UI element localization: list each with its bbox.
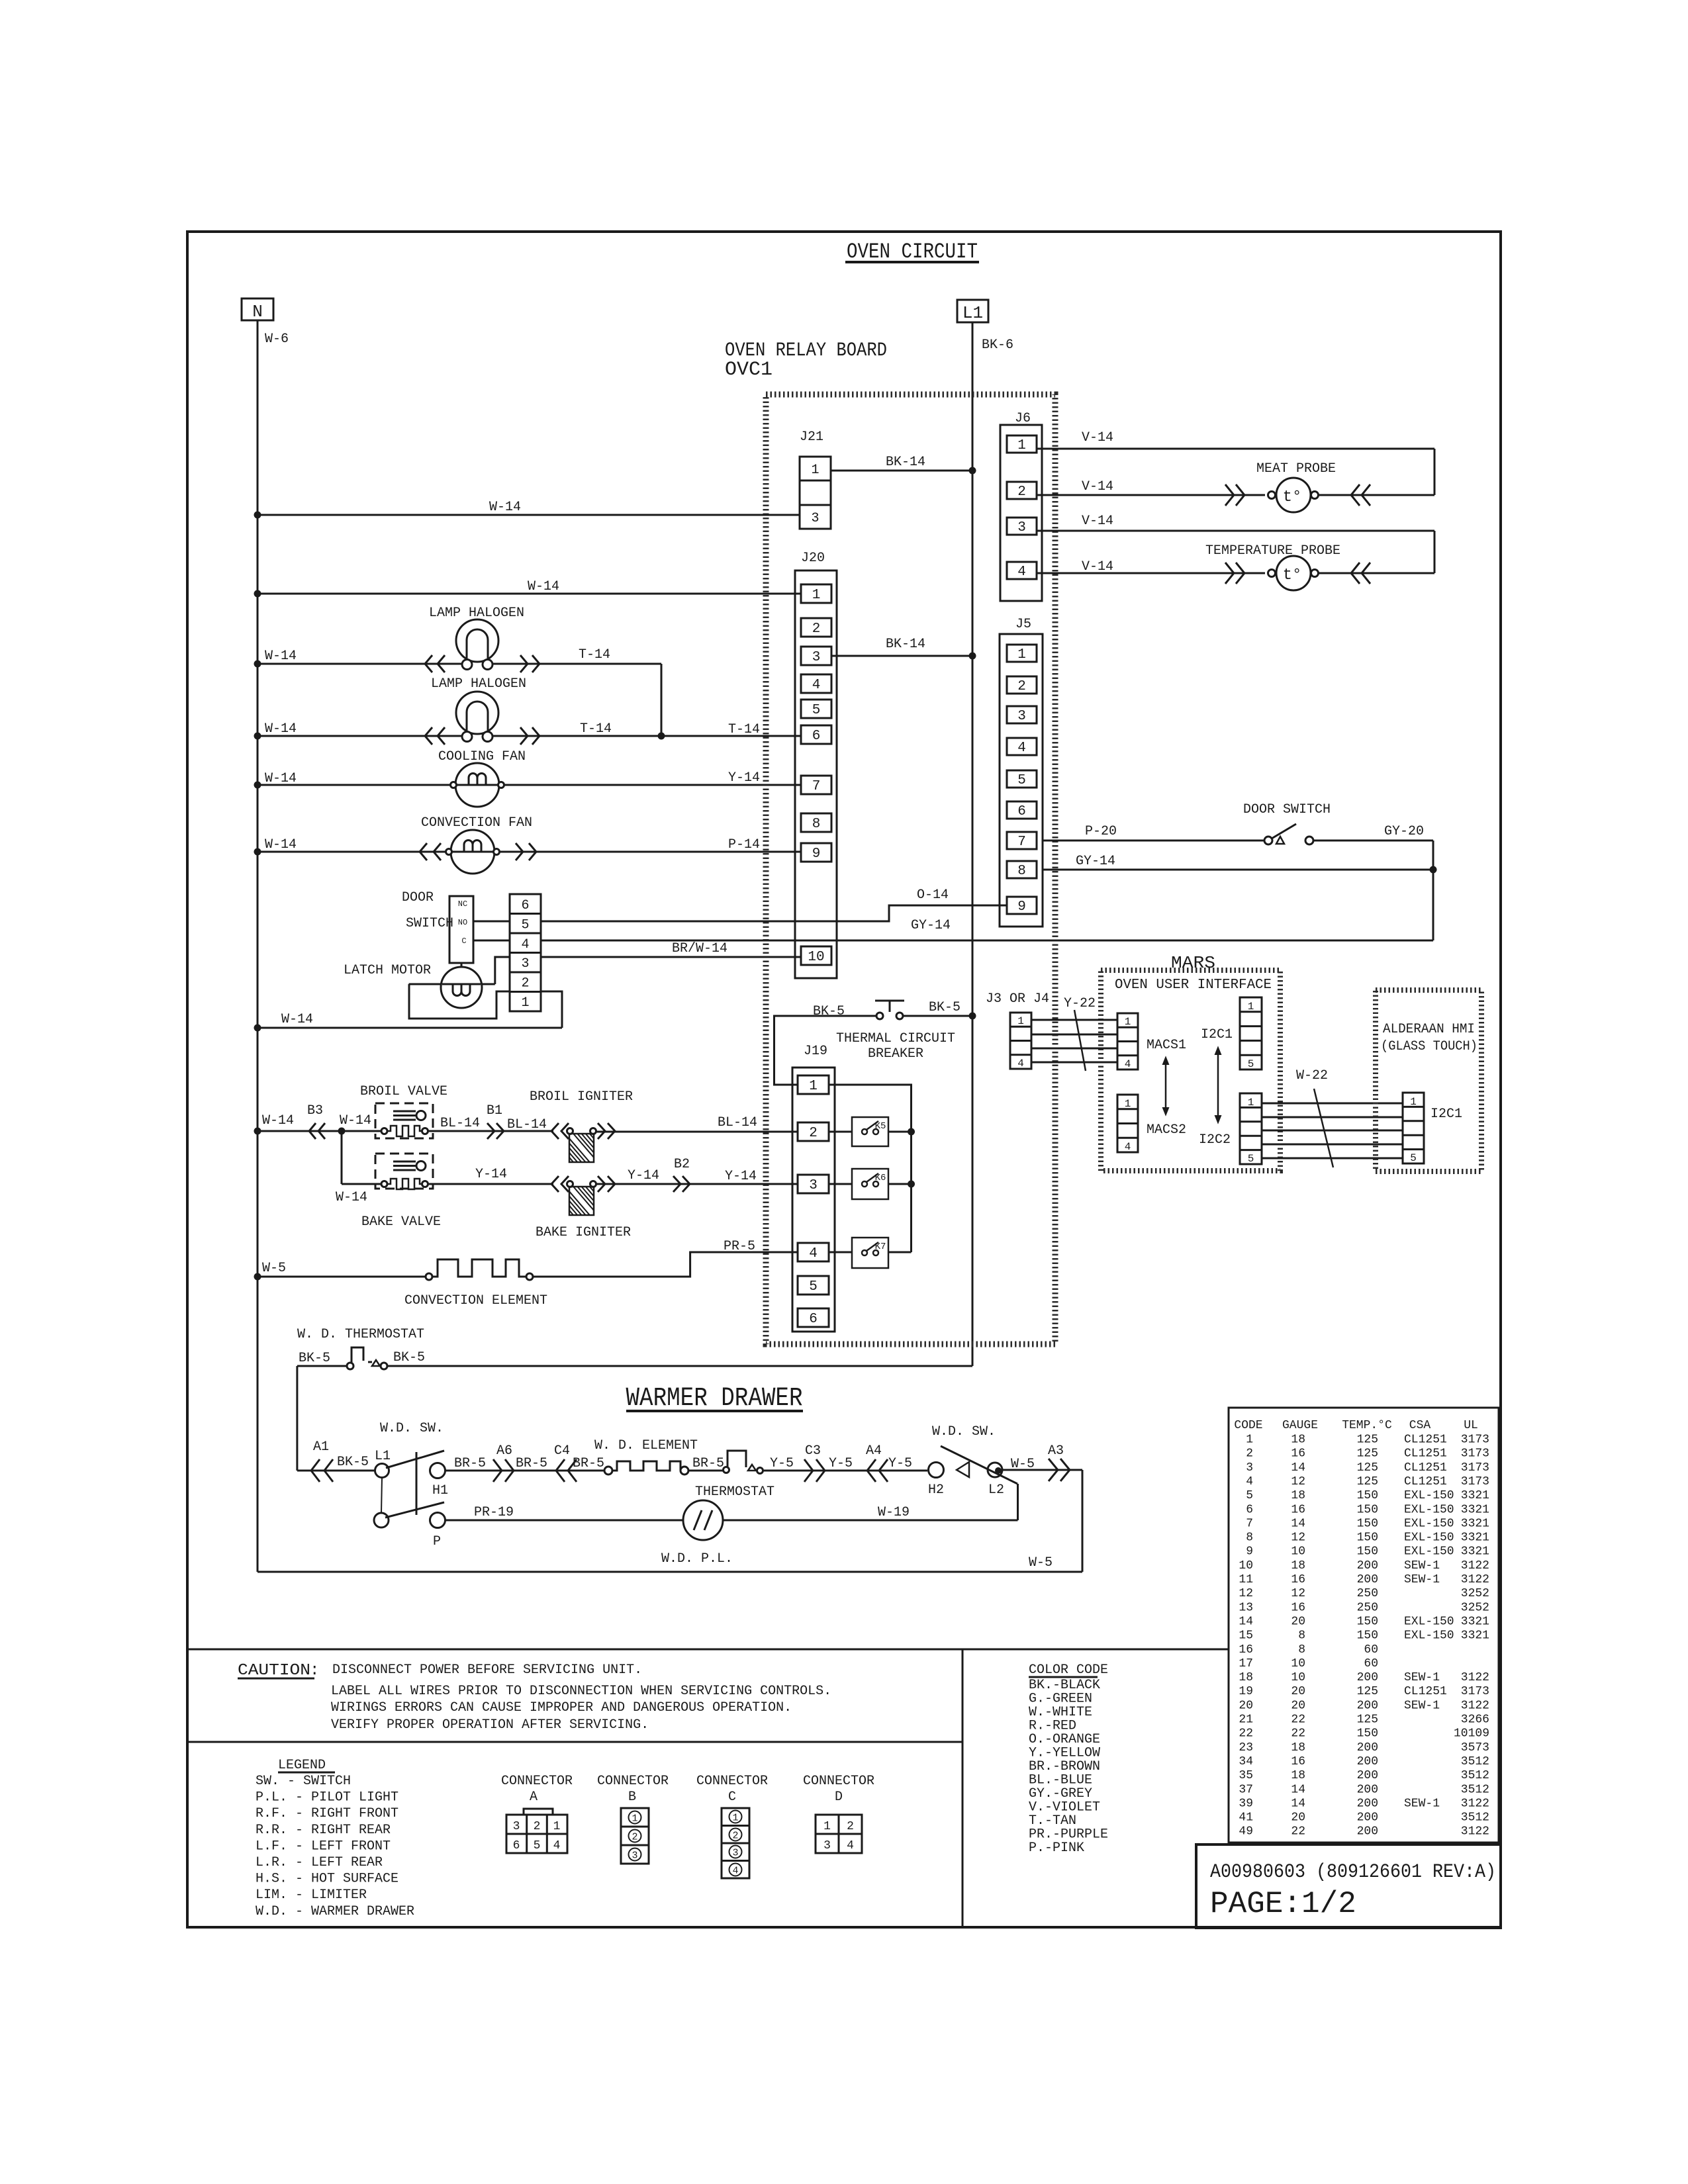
svg-text:4: 4 <box>1017 741 1026 756</box>
node N terminal box <box>242 298 273 320</box>
connector MACS2 <box>1117 1095 1138 1152</box>
door switch right contacts <box>1264 837 1272 844</box>
svg-text:A3: A3 <box>1048 1443 1064 1459</box>
svg-text:20: 20 <box>1239 1699 1253 1712</box>
svg-text:t°: t° <box>1283 488 1302 506</box>
svg-text:3122: 3122 <box>1461 1825 1489 1839</box>
oven relay board OVC1 dashed boundary <box>766 394 1055 1344</box>
svg-text:P: P <box>433 1534 441 1549</box>
svg-text:1: 1 <box>632 1813 637 1825</box>
svg-text:K6: K6 <box>875 1173 886 1183</box>
wire door switch C to cell4 <box>473 940 510 942</box>
svg-text:W. D. ELEMENT: W. D. ELEMENT <box>594 1438 698 1453</box>
svg-text:3: 3 <box>809 1178 818 1193</box>
wire gauge table box <box>1229 1408 1499 1843</box>
svg-text:1: 1 <box>823 1820 831 1833</box>
svg-text:B1: B1 <box>487 1103 502 1118</box>
svg-text:3122: 3122 <box>1461 1797 1489 1810</box>
svg-text:3252: 3252 <box>1461 1601 1489 1614</box>
svg-text:125: 125 <box>1357 1713 1378 1727</box>
J20 pin 10 <box>801 946 831 965</box>
J20 pin 7 <box>801 776 831 794</box>
svg-text:8: 8 <box>1298 1643 1305 1657</box>
svg-text:4: 4 <box>1246 1475 1253 1488</box>
svg-text:250: 250 <box>1357 1601 1378 1614</box>
svg-text:11: 11 <box>1239 1573 1253 1586</box>
svg-text:200: 200 <box>1357 1699 1378 1712</box>
svg-text:SEW-1: SEW-1 <box>1404 1559 1440 1572</box>
svg-text:4: 4 <box>812 678 821 693</box>
svg-text:9: 9 <box>812 846 821 862</box>
svg-text:5: 5 <box>521 917 529 933</box>
svg-text:UL: UL <box>1464 1419 1478 1432</box>
lamp halogen 2 connector chevrons <box>425 727 432 745</box>
svg-text:3173: 3173 <box>1461 1685 1489 1698</box>
svg-text:150: 150 <box>1357 1489 1378 1502</box>
svg-text::: : <box>310 1662 319 1680</box>
svg-text:150: 150 <box>1357 1545 1378 1559</box>
svg-text:10: 10 <box>1239 1559 1253 1572</box>
J20 pin 4 <box>801 674 831 693</box>
svg-text:200: 200 <box>1357 1559 1378 1572</box>
svg-text:W-14: W-14 <box>265 721 297 737</box>
node L1 terminal box <box>957 300 988 322</box>
J6 pin 3 <box>1007 518 1037 535</box>
svg-text:8: 8 <box>1017 864 1026 879</box>
svg-text:200: 200 <box>1357 1769 1378 1782</box>
svg-text:14: 14 <box>1291 1517 1305 1530</box>
wire W-14 to broil valve <box>258 1130 375 1132</box>
svg-text:PAGE:1/2: PAGE:1/2 <box>1210 1887 1356 1921</box>
wires J3/J4 to MACS1 <box>1031 1019 1117 1021</box>
wire GY-20 door switch to right riser <box>1313 840 1433 842</box>
J6 pin 2 <box>1007 482 1037 499</box>
title block box <box>1196 1844 1501 1928</box>
svg-text:Y-14: Y-14 <box>475 1167 507 1182</box>
wire P-14 convection fan to J20 pin9 <box>500 851 801 853</box>
bake valve <box>375 1154 433 1189</box>
J19 pin 3 <box>798 1175 829 1193</box>
svg-text:SWITCH: SWITCH <box>406 916 453 931</box>
svg-text:39: 39 <box>1239 1797 1253 1810</box>
svg-text:3512: 3512 <box>1461 1811 1489 1825</box>
svg-text:20: 20 <box>1291 1685 1305 1698</box>
svg-text:200: 200 <box>1357 1741 1378 1754</box>
svg-text:49: 49 <box>1239 1825 1253 1839</box>
svg-text:16: 16 <box>1291 1447 1305 1461</box>
J20 pin 6 <box>801 725 831 744</box>
svg-text:MEAT PROBE: MEAT PROBE <box>1256 461 1336 477</box>
svg-text:CL1251: CL1251 <box>1404 1685 1447 1698</box>
svg-text:6: 6 <box>1246 1503 1253 1516</box>
wire GY-14 cell4 long run <box>541 940 1433 942</box>
junction dot T-14 <box>658 733 665 740</box>
svg-text:2: 2 <box>809 1126 818 1141</box>
svg-text:BR-5: BR-5 <box>516 1456 547 1471</box>
svg-text:A4: A4 <box>866 1443 882 1459</box>
svg-text:4: 4 <box>1125 1058 1131 1070</box>
svg-text:9: 9 <box>1017 899 1026 915</box>
svg-text:W-14: W-14 <box>265 837 297 852</box>
svg-text:6: 6 <box>1017 804 1026 819</box>
wire W-14 to lamp halogen 2 <box>258 735 462 737</box>
svg-text:17: 17 <box>1239 1657 1253 1670</box>
svg-text:16: 16 <box>1291 1573 1305 1586</box>
caution/legend divider <box>187 1741 962 1743</box>
svg-text:CONNECTOR: CONNECTOR <box>501 1774 573 1789</box>
svg-text:B2: B2 <box>674 1157 690 1172</box>
J19 pin 4 <box>798 1243 829 1261</box>
svg-text:1: 1 <box>1125 1098 1131 1110</box>
svg-text:1: 1 <box>1410 1096 1417 1108</box>
svg-text:14: 14 <box>1239 1615 1253 1628</box>
svg-text:4: 4 <box>732 1866 738 1877</box>
svg-text:K5: K5 <box>875 1121 886 1132</box>
svg-text:15: 15 <box>1239 1629 1253 1643</box>
svg-text:5: 5 <box>534 1839 541 1852</box>
svg-text:3: 3 <box>513 1820 520 1833</box>
svg-text:W-5: W-5 <box>262 1261 286 1276</box>
svg-text:BR-5: BR-5 <box>573 1456 604 1471</box>
J5 pin 2 <box>1007 676 1037 694</box>
wire BK-5 left <box>297 1365 347 1367</box>
svg-text:T-14: T-14 <box>728 722 760 737</box>
J5 pin 8 <box>1007 861 1037 878</box>
svg-text:3321: 3321 <box>1461 1503 1489 1516</box>
svg-text:SEW-1: SEW-1 <box>1404 1671 1440 1684</box>
svg-text:ALDERAAN HMI: ALDERAAN HMI <box>1383 1022 1475 1037</box>
wire W-14 N bus to latch motor cell1 <box>258 1027 562 1029</box>
svg-text:VERIFY PROPER OPERATION AFTER: VERIFY PROPER OPERATION AFTER SERVICING. <box>331 1717 649 1733</box>
temperature probe chevrons <box>1225 563 1234 584</box>
svg-text:H1: H1 <box>432 1483 448 1498</box>
svg-text:J21: J21 <box>800 430 823 445</box>
svg-text:(GLASS TOUCH): (GLASS TOUCH) <box>1381 1039 1477 1054</box>
svg-text:41: 41 <box>1239 1811 1253 1825</box>
wire PR-19 P to pilot light <box>445 1520 683 1522</box>
svg-text:NC: NC <box>458 899 467 909</box>
svg-text:A1: A1 <box>313 1439 329 1455</box>
svg-text:Y-14: Y-14 <box>725 1169 757 1184</box>
wire GY-14 J5 pin8 <box>1043 869 1433 871</box>
svg-text:W.D. SW.: W.D. SW. <box>932 1424 996 1439</box>
wire V-14 J6 pin3 temp probe loop <box>1037 530 1434 532</box>
svg-text:BREAKER: BREAKER <box>868 1046 923 1062</box>
svg-text:L1: L1 <box>375 1449 391 1464</box>
svg-text:OVEN USER INTERFACE: OVEN USER INTERFACE <box>1115 978 1272 993</box>
svg-text:3266: 3266 <box>1461 1713 1489 1727</box>
svg-text:1: 1 <box>812 588 821 603</box>
svg-text:3173: 3173 <box>1461 1461 1489 1475</box>
wire W-5 L2 to chevrons A3 <box>1002 1469 1082 1471</box>
svg-text:10109: 10109 <box>1454 1727 1489 1741</box>
wire warmer drawer bottom return <box>258 1571 1082 1573</box>
J5 pin 1 <box>1007 645 1037 662</box>
svg-text:C: C <box>461 936 466 946</box>
J6 pin 4 <box>1007 562 1037 579</box>
svg-text:MACS2: MACS2 <box>1147 1122 1186 1138</box>
svg-text:12: 12 <box>1239 1587 1253 1600</box>
J5 pin 6 <box>1007 801 1037 819</box>
svg-text:200: 200 <box>1357 1671 1378 1684</box>
svg-text:MACS1: MACS1 <box>1147 1038 1186 1053</box>
wire W-5 to convection element <box>258 1276 426 1278</box>
svg-text:7: 7 <box>812 779 821 794</box>
svg-text:J19: J19 <box>804 1044 827 1059</box>
svg-text:3321: 3321 <box>1461 1545 1489 1559</box>
legend/colorcode vertical divider <box>962 1649 964 1927</box>
svg-text:CONVECTION ELEMENT: CONVECTION ELEMENT <box>404 1293 547 1308</box>
svg-text:C3: C3 <box>805 1443 821 1459</box>
svg-text:NO: NO <box>458 918 467 927</box>
svg-text:5: 5 <box>1248 1153 1254 1165</box>
svg-text:EXL-150: EXL-150 <box>1404 1489 1454 1502</box>
svg-text:2: 2 <box>732 1831 738 1842</box>
J5 pin 5 <box>1007 770 1037 788</box>
svg-text:CONNECTOR: CONNECTOR <box>803 1774 874 1789</box>
svg-text:t°: t° <box>1283 567 1302 584</box>
svg-text:B3: B3 <box>307 1103 323 1118</box>
wire BL-14 broil valve to igniter <box>428 1130 553 1132</box>
wire P-20 J5 pin7 to door switch <box>1043 840 1264 842</box>
svg-text:W-14: W-14 <box>340 1113 371 1128</box>
wire Y-14 cooling fan to J20 pin7 <box>504 784 801 786</box>
wire warmer drawer left drop <box>296 1366 298 1471</box>
svg-text:W-14: W-14 <box>281 1012 313 1027</box>
svg-text:1: 1 <box>553 1820 561 1833</box>
svg-text:GY-14: GY-14 <box>911 918 951 933</box>
wire BK-14 J21 pin1 to L1 bus <box>831 470 972 472</box>
svg-text:W-5: W-5 <box>1011 1457 1035 1472</box>
svg-text:3321: 3321 <box>1461 1489 1489 1502</box>
lamp halogen 2 <box>456 692 498 734</box>
svg-text:C: C <box>728 1790 736 1805</box>
svg-text:150: 150 <box>1357 1531 1378 1545</box>
svg-text:BAKE IGNITER: BAKE IGNITER <box>536 1225 631 1240</box>
svg-text:16: 16 <box>1291 1601 1305 1614</box>
svg-text:BROIL VALVE: BROIL VALVE <box>360 1084 447 1099</box>
door switch body <box>449 896 473 963</box>
svg-text:CL1251: CL1251 <box>1404 1475 1447 1488</box>
svg-text:150: 150 <box>1357 1503 1378 1516</box>
svg-text:WIRINGS ERRORS CAN CAUSE IMPRO: WIRINGS ERRORS CAN CAUSE IMPROPER AND DA… <box>331 1700 792 1715</box>
wire Y-5 thermostat to H2 <box>763 1470 927 1472</box>
svg-text:LIM. - LIMITER: LIM. - LIMITER <box>256 1888 367 1903</box>
svg-text:18: 18 <box>1291 1741 1305 1754</box>
broil igniter <box>551 1123 559 1139</box>
svg-text:18: 18 <box>1291 1559 1305 1572</box>
wire V-14 J6 pin4 to temperature probe <box>1037 572 1265 574</box>
J20 pin 1 <box>801 584 831 603</box>
svg-text:4: 4 <box>847 1839 854 1852</box>
svg-text:3: 3 <box>823 1839 831 1852</box>
svg-text:OVEN CIRCUIT: OVEN CIRCUIT <box>847 240 978 264</box>
wire W-14 N bus to J20 pin1 <box>258 593 801 595</box>
svg-text:1: 1 <box>1246 1433 1253 1447</box>
svg-text:WARMER DRAWER: WARMER DRAWER <box>626 1384 803 1414</box>
svg-text:I2C1: I2C1 <box>1201 1027 1233 1042</box>
svg-text:OVC1: OVC1 <box>725 359 773 381</box>
svg-text:1: 1 <box>1017 647 1026 662</box>
relay K7 <box>852 1238 888 1268</box>
svg-text:20: 20 <box>1291 1615 1305 1628</box>
J20 pin 5 <box>801 700 831 718</box>
svg-text:SW. - SWITCH: SW. - SWITCH <box>256 1774 351 1789</box>
meat probe chevrons <box>1225 484 1234 506</box>
wire W-14 N bus to J21 pin3 <box>258 514 800 516</box>
svg-text:LAMP HALOGEN: LAMP HALOGEN <box>431 676 526 692</box>
wire L1 bus vertical <box>972 322 974 1366</box>
svg-text:W-14: W-14 <box>528 579 559 594</box>
latch motor <box>461 963 463 967</box>
J20 pin 9 <box>801 843 831 862</box>
connector I2C2 <box>1240 1093 1262 1164</box>
wires I2C2 to HMI <box>1262 1103 1403 1105</box>
svg-text:R.F. - RIGHT FRONT: R.F. - RIGHT FRONT <box>256 1806 399 1821</box>
wire BL-14 igniter to J19 pin2 <box>596 1131 798 1133</box>
svg-text:2: 2 <box>521 976 529 991</box>
svg-text:35: 35 <box>1239 1769 1253 1782</box>
J20 pin 2 <box>801 618 831 637</box>
J20 pin 3 <box>801 647 831 665</box>
wire PR-5 element to J19 pin4 <box>533 1252 798 1277</box>
W.D. pilot light <box>683 1500 723 1540</box>
J19 pin 2 <box>798 1122 829 1141</box>
svg-text:8: 8 <box>1298 1629 1305 1643</box>
svg-text:150: 150 <box>1357 1629 1378 1643</box>
svg-text:DOOR SWITCH: DOOR SWITCH <box>1243 802 1331 817</box>
J5 pin 7 <box>1007 832 1037 849</box>
svg-text:2: 2 <box>534 1820 541 1833</box>
svg-text:P-14: P-14 <box>728 837 760 852</box>
svg-text:W-14: W-14 <box>262 1113 294 1128</box>
wire BK-5 J19 pin1 riser <box>774 1016 877 1085</box>
svg-text:J5: J5 <box>1015 617 1031 632</box>
svg-text:1: 1 <box>1125 1016 1131 1028</box>
svg-text:THERMOSTAT: THERMOSTAT <box>695 1484 774 1500</box>
page border frame <box>187 232 1501 1927</box>
svg-text:DISCONNECT POWER BEFORE SERVIC: DISCONNECT POWER BEFORE SERVICING UNIT. <box>332 1662 642 1678</box>
meat probe sensor <box>1268 492 1276 499</box>
svg-text:8: 8 <box>812 817 821 832</box>
svg-text:18: 18 <box>1239 1671 1253 1684</box>
svg-text:5: 5 <box>1017 773 1026 788</box>
convection element <box>426 1273 432 1280</box>
svg-text:125: 125 <box>1357 1433 1378 1447</box>
svg-text:L2: L2 <box>988 1482 1004 1498</box>
svg-text:I2C2: I2C2 <box>1199 1132 1231 1148</box>
svg-text:W.D. SW.: W.D. SW. <box>380 1421 444 1436</box>
svg-text:200: 200 <box>1357 1825 1378 1839</box>
svg-text:5: 5 <box>1410 1152 1417 1164</box>
svg-text:W-19: W-19 <box>878 1505 910 1520</box>
svg-text:4: 4 <box>521 937 529 952</box>
J5 pin 9 <box>1007 897 1037 914</box>
wire W-19 pilot light to L2 <box>723 1520 1018 1522</box>
svg-text:Y-5: Y-5 <box>888 1456 912 1471</box>
svg-text:PR-19: PR-19 <box>474 1505 514 1520</box>
latch motor wires <box>409 983 442 985</box>
svg-text:Y-14: Y-14 <box>628 1168 659 1183</box>
svg-text:12: 12 <box>1291 1531 1305 1545</box>
svg-text:1: 1 <box>809 1079 818 1094</box>
svg-text:V-14: V-14 <box>1082 514 1113 529</box>
J19 pin 5 <box>798 1276 829 1295</box>
svg-text:BK-5: BK-5 <box>299 1351 330 1366</box>
svg-text:6: 6 <box>812 729 821 744</box>
wire BR/W-14 cell3 to J20 pin10 <box>541 956 801 958</box>
svg-text:P-20: P-20 <box>1085 824 1117 839</box>
svg-text:3321: 3321 <box>1461 1517 1489 1530</box>
svg-text:BL-14: BL-14 <box>718 1115 757 1130</box>
svg-text:6: 6 <box>513 1839 520 1852</box>
wire V-14 J6 pin2 to meat probe <box>1037 494 1265 496</box>
svg-text:BK-14: BK-14 <box>886 637 925 652</box>
svg-text:22: 22 <box>1239 1727 1253 1741</box>
wire W-14 to lamp halogen 1 <box>258 663 462 665</box>
wire door switch NO to cell5 <box>473 921 510 923</box>
svg-text:COOLING FAN: COOLING FAN <box>438 749 526 764</box>
svg-text:5: 5 <box>809 1279 818 1295</box>
svg-text:CL1251: CL1251 <box>1404 1461 1447 1475</box>
wire W-14 to bake valve <box>341 1131 343 1184</box>
svg-text:Y-14: Y-14 <box>728 770 760 786</box>
svg-text:10: 10 <box>1291 1657 1305 1670</box>
svg-text:BL-14: BL-14 <box>440 1116 480 1131</box>
svg-text:1: 1 <box>1248 1097 1254 1109</box>
svg-text:18: 18 <box>1291 1489 1305 1502</box>
svg-text:150: 150 <box>1357 1727 1378 1741</box>
thermal circuit breaker <box>876 1013 883 1019</box>
svg-text:5: 5 <box>1246 1489 1253 1502</box>
svg-text:P.L. - PILOT LIGHT: P.L. - PILOT LIGHT <box>256 1790 399 1805</box>
svg-text:CODE: CODE <box>1234 1419 1262 1432</box>
junction dots on N bus <box>254 512 261 519</box>
wire V-14 J6 pin1 meat probe loop <box>1037 448 1434 450</box>
svg-text:1: 1 <box>1017 1015 1024 1027</box>
svg-text:6: 6 <box>521 898 529 913</box>
pilot contact H1 <box>430 1463 445 1479</box>
svg-text:3512: 3512 <box>1461 1755 1489 1768</box>
svg-text:D: D <box>835 1790 843 1805</box>
svg-text:BK-5: BK-5 <box>393 1350 425 1365</box>
svg-text:BR-5: BR-5 <box>454 1456 486 1471</box>
svg-text:TEMPERATURE PROBE: TEMPERATURE PROBE <box>1205 543 1340 559</box>
svg-text:3: 3 <box>1017 709 1026 724</box>
caution box top divider <box>187 1649 1229 1651</box>
svg-text:BAKE VALVE: BAKE VALVE <box>361 1214 441 1230</box>
svg-text:3252: 3252 <box>1461 1587 1489 1600</box>
svg-text:2: 2 <box>847 1820 854 1833</box>
wire BK-14 J20 pin3 to L1 bus <box>831 655 972 657</box>
svg-text:2: 2 <box>1246 1447 1253 1461</box>
W.D. switch left <box>375 1464 389 1478</box>
J19 pin 1 <box>798 1075 829 1094</box>
svg-text:3122: 3122 <box>1461 1573 1489 1586</box>
svg-text:60: 60 <box>1364 1643 1378 1657</box>
svg-text:J3 OR J4: J3 OR J4 <box>986 991 1049 1007</box>
wire W-14 to cooling fan <box>258 784 451 786</box>
connector MACS1 <box>1117 1013 1138 1069</box>
svg-text:BR-5: BR-5 <box>692 1456 724 1471</box>
pilot contact P <box>430 1513 445 1528</box>
cooling fan motor <box>455 763 499 807</box>
svg-text:150: 150 <box>1357 1517 1378 1530</box>
MACS arrow <box>1165 1062 1167 1111</box>
I2C arrow <box>1217 1052 1219 1118</box>
svg-text:16: 16 <box>1291 1755 1305 1768</box>
wire BK-5 thermostat to L1 bus <box>387 1365 972 1367</box>
